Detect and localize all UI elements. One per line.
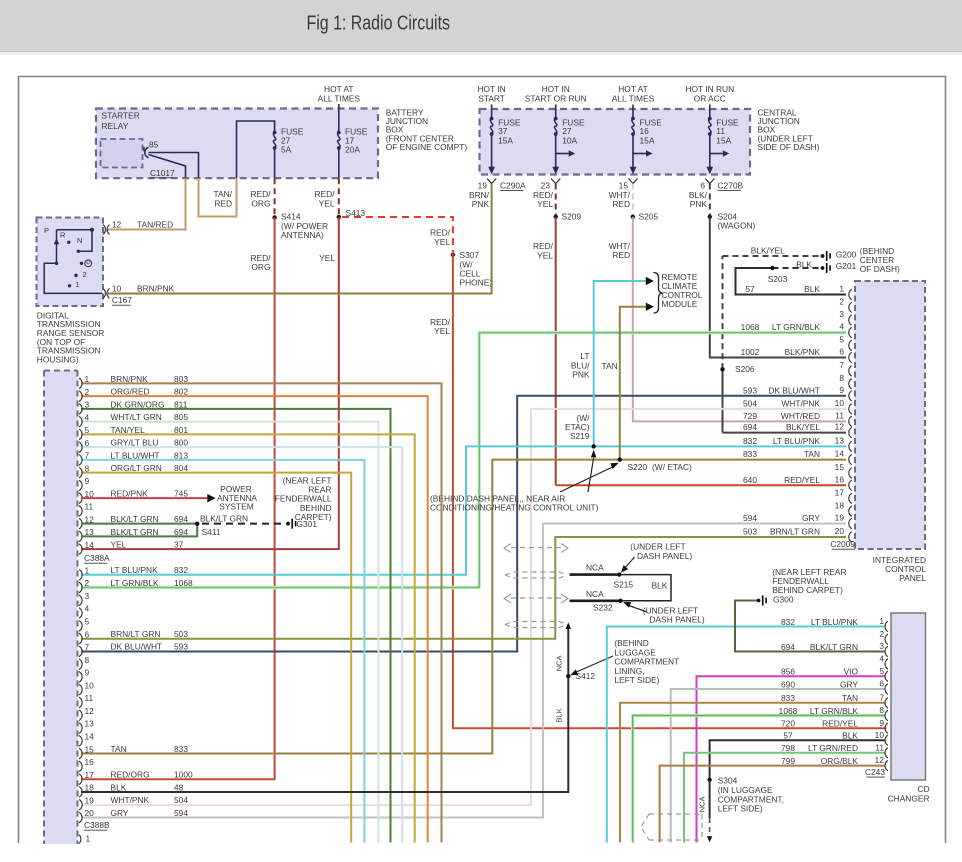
CD changer pin 8 connector (885, 710, 888, 720)
svg-text:14: 14 (85, 540, 95, 550)
svg-text:CONDITIONING/HEATING CONTROL U: CONDITIONING/HEATING CONTROL UNIT) (430, 503, 599, 513)
svg-text:BRN/LT GRN: BRN/LT GRN (770, 527, 820, 537)
svg-text:16: 16 (835, 474, 845, 484)
battery junction box (with starter relay) (96, 109, 378, 179)
CD changer pin 1 connector (885, 621, 888, 631)
wire LT BLU/PNK 832: ICP pin 13 - S219 - C388B pin 1 (81, 446, 846, 574)
ICP pin 11 connector (849, 416, 852, 426)
svg-text:Fig 1: Radio Circuits: Fig 1: Radio Circuits (307, 13, 451, 35)
svg-text:LEFT SIDE): LEFT SIDE) (718, 804, 763, 814)
svg-text:8: 8 (839, 373, 844, 383)
wire NCA below S304 (dashed) (709, 780, 711, 818)
svg-text:RED/PNK: RED/PNK (111, 489, 149, 499)
wire ORG/RED 802 C388A pin 2 (81, 396, 428, 842)
svg-text:832: 832 (781, 617, 795, 627)
svg-text:12: 12 (112, 220, 122, 230)
svg-text:5: 5 (879, 666, 884, 676)
svg-text:P: P (44, 226, 49, 235)
C388B pin 3 connector (79, 595, 82, 606)
fuse 27 10A (central junction box) (555, 105, 557, 119)
wire TAN/YEL 801 C388A pin 5 (81, 434, 415, 842)
ground G201 (821, 266, 825, 270)
svg-text:85: 85 (149, 139, 159, 149)
svg-text:YEL: YEL (434, 237, 450, 247)
svg-text:10: 10 (835, 398, 845, 408)
wire WHT/LT GRN 805 C388A pin 4 (81, 422, 379, 843)
svg-text:TAN: TAN (111, 744, 127, 754)
svg-text:S205: S205 (639, 212, 659, 222)
wire BLK 57 S203 loop to ICP pin 1 (736, 268, 847, 295)
wire: tan U below box (199, 178, 237, 216)
ICP pin 7 connector (849, 366, 852, 376)
svg-text:1: 1 (76, 280, 80, 289)
svg-text:1: 1 (86, 834, 91, 844)
ICP pin 13 connector (849, 441, 852, 451)
svg-text:20: 20 (85, 808, 95, 818)
ICP pin 8 connector (849, 379, 852, 389)
ICP pin 2 connector (849, 302, 852, 312)
svg-text:6: 6 (879, 679, 884, 689)
wire LT BLU/PNK 832 to CD pin 1 (607, 627, 885, 843)
C388B pin 1 connector (79, 569, 82, 580)
svg-text:S209: S209 (562, 212, 582, 222)
svg-text:20A: 20A (345, 145, 360, 155)
svg-text:LT BLU/PNK: LT BLU/PNK (111, 565, 159, 575)
svg-text:WHT/PNK: WHT/PNK (781, 399, 820, 409)
svg-text:ORG/RED: ORG/RED (111, 387, 150, 397)
splice S411 (195, 521, 199, 525)
svg-text:811: 811 (174, 399, 188, 409)
svg-text:PHONE): PHONE) (460, 277, 493, 287)
svg-text:LT GRN/BLK: LT GRN/BLK (772, 322, 821, 332)
C388A pin 1 connector (79, 378, 82, 389)
C388A pin 7 connector (79, 455, 82, 466)
svg-text:12: 12 (835, 422, 845, 432)
wire BLK/PNK 6 (dashed) from C270B (709, 184, 711, 217)
svg-text:694: 694 (174, 527, 188, 537)
arrow to climate module (top) (646, 277, 654, 285)
svg-text:BLK/YEL: BLK/YEL (786, 422, 820, 432)
svg-text:LT GRN/BLK: LT GRN/BLK (111, 578, 160, 588)
svg-text:RED: RED (214, 198, 232, 208)
ICP pin 15 connector (849, 468, 852, 478)
svg-text:BLK: BLK (652, 581, 668, 591)
svg-text:C2009: C2009 (830, 539, 855, 549)
svg-text:TAN: TAN (804, 449, 820, 459)
svg-text:DK GRN/ORG: DK GRN/ORG (111, 399, 165, 409)
wire RED/YEL from fuse 17 (dashed) (338, 178, 340, 217)
CD changer pin 7 connector (885, 698, 888, 708)
svg-text:3: 3 (85, 400, 90, 410)
wire BRN/PNK 803 C388A pin 1 (81, 383, 442, 842)
C388A pin 6 connector (79, 442, 82, 453)
svg-text:BLK/LT GRN: BLK/LT GRN (111, 527, 159, 537)
svg-text:15A: 15A (498, 136, 513, 146)
svg-text:7: 7 (839, 360, 844, 370)
svg-text:G201: G201 (836, 261, 857, 271)
svg-text:7: 7 (879, 692, 884, 702)
svg-text:NCA: NCA (555, 655, 564, 671)
svg-text:HOT IN: HOT IN (477, 84, 505, 94)
wire GRY 594: ICP pin 19 to C388B pin 20 (81, 524, 846, 818)
svg-text:1068: 1068 (741, 322, 760, 332)
svg-text:YEL: YEL (319, 198, 335, 208)
ICP pin 6 connector (849, 352, 852, 362)
svg-text:16: 16 (85, 757, 95, 767)
svg-text:800: 800 (174, 438, 188, 448)
C388A pin 13 connector (79, 531, 82, 542)
wire RED/YEL dashed S413 to S307 (342, 217, 453, 250)
wire RED/YEL 640 to ICP pin 16 (555, 217, 557, 486)
svg-text:CHANGER: CHANGER (888, 793, 930, 803)
NCA wire to S215 (570, 573, 620, 576)
wire TAN 833 to CD pin 7 (620, 703, 885, 843)
svg-text:15: 15 (85, 744, 95, 754)
svg-text:TAN/RED: TAN/RED (137, 220, 173, 230)
svg-text:S411: S411 (202, 527, 221, 537)
svg-text:803: 803 (174, 374, 188, 384)
svg-text:640: 640 (743, 475, 757, 485)
splice S215 (617, 572, 621, 576)
svg-text:593: 593 (743, 385, 757, 395)
svg-text:833: 833 (781, 693, 795, 703)
svg-text:6: 6 (839, 347, 844, 357)
svg-text:S412: S412 (576, 671, 596, 681)
wire TAN 833: ICP pin 14 - S220 - C388B pin 15 (81, 460, 846, 754)
svg-text:(W/ ETAC): (W/ ETAC) (652, 462, 692, 472)
C388B pin 5 connector (79, 621, 82, 632)
NCA wire to S232 (570, 599, 621, 602)
svg-text:LT GRN/BLK: LT GRN/BLK (810, 706, 859, 716)
svg-text:19: 19 (85, 795, 95, 805)
C388A pin 12 connector (79, 518, 82, 529)
wire BLK/LT GRN 694 C388A pin 13 joins S411 (81, 524, 197, 537)
svg-text:ALL TIMES: ALL TIMES (318, 93, 361, 103)
splice S304 (707, 778, 711, 782)
svg-text:ORG/BLK: ORG/BLK (821, 756, 859, 766)
ground G300 (757, 599, 761, 603)
CD changer pin 9 connector (885, 723, 888, 733)
C388A pin 8 connector (79, 467, 82, 478)
C388B pin 4 connector (79, 608, 82, 619)
C388A pin 4 connector (79, 416, 82, 427)
svg-text:1: 1 (879, 616, 884, 626)
svg-text:NCA: NCA (586, 562, 604, 572)
C388B pin 14 connector (79, 736, 82, 747)
wire DK GRN/ORG 811 C388A pin 3 (81, 409, 391, 843)
svg-text:813: 813 (174, 450, 188, 460)
wire TAN branch to remote climate control module (620, 307, 646, 460)
wire BRN/LT GRN 503: ICP pin 20 to C388B pin 6 (81, 537, 846, 639)
svg-text:1: 1 (839, 284, 844, 294)
C388B pin 13 connector (79, 723, 82, 734)
svg-text:833: 833 (174, 744, 188, 754)
ICP pin 19 connector (849, 518, 852, 528)
cable bundle symbol lower (511, 597, 561, 599)
svg-text:YEL: YEL (537, 250, 553, 260)
svg-text:802: 802 (174, 387, 188, 397)
svg-text:3: 3 (839, 309, 844, 319)
svg-text:SYSTEM: SYSTEM (219, 502, 253, 512)
svg-text:PANEL: PANEL (899, 573, 926, 583)
svg-text:VIO: VIO (844, 667, 859, 677)
cable bundle symbol bottom (649, 813, 702, 815)
ICP pin 3 connector (849, 315, 852, 325)
svg-text:YEL: YEL (537, 199, 553, 209)
svg-text:DASH PANEL): DASH PANEL) (650, 615, 705, 625)
central junction box (480, 109, 751, 175)
svg-text:C290A: C290A (500, 181, 526, 191)
svg-text:DASH PANEL): DASH PANEL) (637, 551, 692, 561)
svg-text:8: 8 (85, 463, 90, 473)
svg-text:ORG/LT GRN: ORG/LT GRN (111, 463, 162, 473)
svg-text:1: 1 (85, 565, 90, 575)
svg-text:PNK: PNK (572, 370, 590, 380)
svg-text:BLK: BLK (111, 782, 127, 792)
svg-text:LT BLU/WHT: LT BLU/WHT (111, 450, 160, 460)
wire RED/YEL 720 to CD pin 9 (453, 250, 887, 728)
wire BLK 48 C388B pin 18 to S412/S215 net (81, 627, 568, 792)
wire BLK 57 CD pin 10 to S304 (710, 740, 885, 780)
wire BLK/LT GRN 694 CD pin 3 to ground G300 (735, 601, 885, 652)
svg-text:801: 801 (174, 425, 188, 435)
fuse 16 15A (central junction box) (632, 105, 634, 119)
svg-text:504: 504 (743, 399, 757, 409)
svg-text:2: 2 (85, 578, 90, 588)
svg-text:GRY/LT BLU: GRY/LT BLU (111, 438, 159, 448)
C388A pin 11 connector (79, 506, 82, 517)
svg-text:11: 11 (85, 502, 94, 512)
svg-text:N: N (77, 236, 82, 245)
svg-text:12: 12 (85, 706, 95, 716)
svg-text:37: 37 (174, 540, 184, 550)
svg-text:HOT IN: HOT IN (542, 84, 570, 94)
CD changer pin 10 connector (885, 735, 888, 745)
svg-text:G300: G300 (773, 594, 794, 604)
splice S307 (451, 253, 455, 257)
svg-text:LT BLU/PNK: LT BLU/PNK (811, 617, 859, 627)
svg-text:S215: S215 (614, 580, 634, 590)
svg-text:BLK/PNK: BLK/PNK (785, 347, 821, 357)
svg-text:15A: 15A (716, 136, 731, 146)
DTR pin 12 connector (103, 225, 106, 235)
C388B pin 20 connector (79, 812, 82, 823)
svg-text:1002: 1002 (741, 347, 760, 357)
svg-text:OF DASH): OF DASH) (860, 264, 900, 274)
CD changer pin 4 connector (885, 659, 888, 669)
cd changer box (891, 613, 926, 780)
svg-text:9: 9 (839, 385, 844, 395)
wire YEL 37 to C388A pin 14 (81, 217, 339, 549)
svg-text:BLK: BLK (555, 708, 564, 722)
svg-text:3: 3 (85, 591, 90, 601)
svg-text:S304: S304 (718, 775, 738, 785)
svg-text:690: 690 (781, 679, 795, 689)
wire LT BLU/WHT 813 C388A pin 7 (81, 460, 364, 843)
arrow to climate module (bottom) (646, 303, 654, 311)
ICP pin 16 connector (849, 480, 852, 490)
ICP pin 5 connector (849, 340, 852, 350)
C388A pin 5 connector (79, 429, 82, 440)
wire RED/YEL 23 (dashed) from C290A (555, 184, 557, 217)
ICP pin 1 connector (849, 289, 852, 299)
svg-text:TAN/YEL: TAN/YEL (111, 425, 146, 435)
svg-text:805: 805 (174, 412, 188, 422)
svg-text:NCA: NCA (698, 796, 707, 812)
C388B pin 6 connector (79, 633, 82, 644)
svg-text:503: 503 (743, 527, 757, 537)
svg-text:1000: 1000 (174, 770, 193, 780)
svg-text:832: 832 (743, 436, 757, 446)
svg-text:OR ACC: OR ACC (694, 93, 726, 103)
C388B pin 8 connector (79, 659, 82, 670)
svg-text:2: 2 (879, 629, 884, 639)
svg-text:15: 15 (835, 462, 845, 472)
svg-text:6: 6 (85, 629, 90, 639)
svg-text:832: 832 (174, 565, 188, 575)
splice S206 (720, 367, 724, 371)
fuse 27 5A (battery box) (273, 131, 277, 135)
svg-text:LT BLU/PNK: LT BLU/PNK (773, 436, 821, 446)
C388B pin 15 connector (79, 748, 82, 759)
svg-text:DK BLU/WHT: DK BLU/WHT (768, 385, 820, 395)
wire WHT/RED 15 (dashed) from CJB (632, 184, 634, 217)
DTR pin 10 connector (103, 288, 106, 298)
svg-text:4: 4 (85, 604, 90, 614)
wire VIO 856 to CD pin 5 (697, 676, 886, 842)
svg-text:11: 11 (875, 742, 884, 752)
splice S232 (618, 599, 622, 603)
svg-text:5A: 5A (281, 145, 292, 155)
svg-text:504: 504 (174, 795, 188, 805)
svg-text:1068: 1068 (174, 578, 193, 588)
splice S203 (770, 266, 774, 270)
svg-text:RED: RED (612, 199, 630, 209)
svg-text:4: 4 (879, 654, 884, 664)
C388A pin 3 connector (79, 404, 82, 415)
svg-text:745: 745 (174, 489, 188, 499)
svg-text:17: 17 (835, 488, 845, 498)
svg-text:HOT AT: HOT AT (618, 84, 647, 94)
svg-text:(WAGON): (WAGON) (718, 221, 756, 231)
leader arrow to S412 (573, 656, 613, 674)
C388B pin 18 connector (79, 787, 82, 798)
svg-text:WHT/PNK: WHT/PNK (111, 795, 150, 805)
svg-text:694: 694 (174, 514, 188, 524)
svg-text:ORG: ORG (251, 262, 270, 272)
svg-text:2: 2 (839, 296, 844, 306)
C388B pin 16 connector (79, 761, 82, 772)
svg-text:11: 11 (85, 693, 94, 703)
svg-text:HOT IN RUN: HOT IN RUN (685, 84, 734, 94)
svg-text:7: 7 (85, 451, 90, 461)
svg-text:GRY: GRY (802, 513, 820, 523)
fuse 37 15A (central junction box) (491, 105, 493, 119)
splice S412 (566, 674, 570, 678)
splice S209 (554, 215, 558, 219)
svg-text:TAN: TAN (602, 361, 618, 371)
starter relay inner box (101, 139, 143, 168)
svg-text:6: 6 (85, 438, 90, 448)
svg-text:694: 694 (781, 642, 795, 652)
wire RED/ORG from fuse 27 (dashed) (274, 178, 276, 217)
fuse 11 15A (central junction box) (709, 105, 711, 119)
C388B pin 11 connector (79, 697, 82, 708)
svg-text:S220: S220 (628, 462, 648, 472)
svg-text:PNK: PNK (690, 199, 708, 209)
svg-text:4: 4 (839, 322, 844, 332)
svg-text:10: 10 (875, 730, 885, 740)
digital transmission range sensor box C167 (37, 218, 104, 307)
ICP pin 20 connector (849, 532, 852, 542)
svg-text:GRY: GRY (840, 679, 858, 689)
ICP pin 9 connector (849, 391, 852, 401)
ICP pin 10 connector (849, 404, 852, 414)
svg-text:2: 2 (83, 270, 87, 279)
wire GRY/LT BLU 800 C388A pin 6 (81, 447, 402, 842)
CD changer pin 2 connector (885, 634, 888, 644)
svg-text:10A: 10A (562, 136, 577, 146)
svg-text:5: 5 (85, 425, 90, 435)
svg-text:798: 798 (781, 743, 795, 753)
wire ORG/BLK 799 to CD pin 12 (660, 766, 885, 843)
svg-text:720: 720 (781, 719, 795, 729)
svg-text:SIDE OF DASH): SIDE OF DASH) (758, 142, 820, 152)
wire LT GRN/RED 798 to CD pin 11 (684, 753, 885, 843)
wire LT BLU/PNK branch to remote climate control module (594, 281, 646, 446)
svg-text:OF ENGINE COMPT): OF ENGINE COMPT) (386, 142, 468, 152)
svg-text:4: 4 (85, 412, 90, 422)
ICP pin 14 connector (849, 454, 852, 464)
svg-text:694: 694 (743, 422, 757, 432)
svg-text:BRN/PNK: BRN/PNK (137, 283, 175, 293)
svg-text:DK BLU/WHT: DK BLU/WHT (111, 642, 163, 652)
svg-text:RED/YEL: RED/YEL (822, 719, 858, 729)
CD changer pin 6 connector (885, 684, 888, 694)
svg-text:BLK/LT GRN: BLK/LT GRN (111, 514, 159, 524)
wire BRN/PNK 19 to DTR pin 10 (107, 184, 492, 294)
wire RED/ORG 1000 to C388B pin 17 (81, 218, 275, 780)
leader arrow to S232 (626, 605, 647, 613)
svg-text:BRN/LT GRN: BRN/LT GRN (111, 629, 161, 639)
svg-text:48: 48 (174, 782, 184, 792)
svg-text:15A: 15A (640, 136, 655, 146)
svg-text:HOUSING): HOUSING) (37, 354, 79, 364)
svg-text:57: 57 (783, 731, 793, 741)
DTR sensor internals (57, 229, 93, 231)
svg-text:804: 804 (174, 463, 188, 473)
svg-text:17: 17 (85, 770, 95, 780)
svg-text:594: 594 (743, 513, 757, 523)
svg-text:YEL: YEL (434, 326, 450, 336)
C388B pin 10 connector (79, 684, 82, 695)
svg-text:S203: S203 (768, 274, 788, 284)
svg-text:593: 593 (174, 642, 188, 652)
svg-text:3: 3 (879, 641, 884, 651)
svg-text:14: 14 (835, 449, 845, 459)
svg-text:BLK: BLK (842, 731, 858, 741)
C388B pin 12 connector (79, 710, 82, 721)
svg-text:ANTENNA): ANTENNA) (281, 230, 324, 240)
C388B pin 2 connector (79, 582, 82, 593)
svg-text:WHT/RED: WHT/RED (781, 411, 820, 421)
svg-text:BLK: BLK (796, 260, 812, 270)
svg-text:2: 2 (85, 387, 90, 397)
svg-text:57: 57 (745, 284, 755, 294)
C388B pin 9 connector (79, 672, 82, 683)
svg-text:PNK: PNK (472, 199, 490, 209)
wire ORG/LT GRN 804 C388A pin 8 (81, 473, 351, 843)
